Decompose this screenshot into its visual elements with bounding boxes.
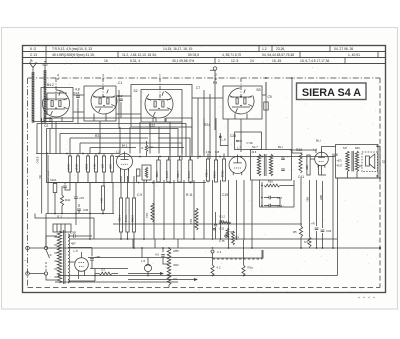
component on wire 266 xyxy=(264,102,268,110)
resistor column R44 xyxy=(94,156,97,172)
power transformer secondary xyxy=(68,234,70,283)
svg-text:30T: 30T xyxy=(101,164,105,169)
wire antenna drop join xyxy=(51,122,53,129)
earth lead coil hatched xyxy=(44,70,46,123)
resistor R6b xyxy=(226,228,229,238)
svg-text:1: 1 xyxy=(159,74,161,78)
svg-text:R13: R13 xyxy=(189,219,193,224)
chassis boundary top dash-dot xyxy=(28,77,380,79)
power transformer taps xyxy=(54,237,57,277)
svg-text:B4.2: B4.2 xyxy=(122,143,128,147)
svg-text:C28: C28 xyxy=(230,134,236,138)
svg-text:C 13: C 13 xyxy=(30,53,37,57)
svg-text:S.1: S.1 xyxy=(57,215,62,219)
capacitor C48 xyxy=(269,204,271,208)
wire dashed y259 xyxy=(213,258,263,260)
svg-text:R.11: R.11 xyxy=(186,193,193,197)
small box mid xyxy=(137,169,140,176)
svg-text:R26: R26 xyxy=(296,148,302,152)
wires output stage xyxy=(310,147,336,176)
bus line main xyxy=(36,153,120,155)
model label box SIERA S4 A xyxy=(297,83,367,100)
svg-text:L.7: L.7 xyxy=(237,146,241,150)
svg-text:R49: R49 xyxy=(355,147,360,150)
box around BF9 C36 labels xyxy=(235,132,262,150)
resistor column R45 xyxy=(102,156,105,172)
svg-text:2: 2 xyxy=(218,59,220,63)
resistor box column R8 xyxy=(167,160,170,182)
AVC cluster box xyxy=(260,180,295,207)
svg-text:R12: R12 xyxy=(145,213,149,218)
transformer top winding box xyxy=(53,224,71,232)
svg-text:15, 6,7,4,5 17,17,36: 15, 6,7,4,5 17,17,36 xyxy=(300,59,329,63)
wires center-low verticals xyxy=(121,176,134,248)
capacitor C25 xyxy=(90,259,94,261)
svg-text:4.8: 4.8 xyxy=(75,88,80,92)
wires IF to output connector xyxy=(290,150,316,154)
svg-text:C41: C41 xyxy=(298,175,304,179)
antenna post terminal xyxy=(213,67,217,71)
svg-text:500K: 500K xyxy=(85,164,89,170)
wires resistor column tops xyxy=(70,154,112,157)
resistor column R46 xyxy=(110,156,113,172)
tube B1 wiring box xyxy=(41,88,73,122)
svg-text:+25°: +25° xyxy=(95,255,101,259)
svg-text:R31: R31 xyxy=(306,197,309,202)
table row 1 text xyxy=(30,47,353,51)
svg-text:44013: 44013 xyxy=(205,170,208,177)
wire corners xyxy=(213,250,264,258)
svg-text:R6: R6 xyxy=(231,230,235,234)
svg-text:C4051: C4051 xyxy=(131,215,134,223)
svg-text:C40/B: C40/B xyxy=(37,156,40,163)
svg-text:40011: 40011 xyxy=(155,171,158,178)
bus y257 xyxy=(88,257,213,259)
svg-text:R16: R16 xyxy=(268,180,273,184)
svg-text:R48: R48 xyxy=(319,195,322,200)
wire routing mesh upper xyxy=(44,118,192,157)
svg-text:R42: R42 xyxy=(65,198,71,202)
svg-text:R62: R62 xyxy=(174,263,180,267)
chassis boundary right dashed xyxy=(379,78,381,288)
wire verticals right of B4 xyxy=(266,78,292,153)
svg-text:5.5: 5.5 xyxy=(101,268,105,272)
wires transformer secondary taps xyxy=(68,248,95,282)
svg-text:C45: C45 xyxy=(215,151,220,154)
svg-text:04, 27 06, 26: 04, 27 06, 26 xyxy=(334,47,353,51)
svg-text:R: R xyxy=(142,146,144,150)
bus y224 xyxy=(113,223,302,225)
wires switch to transformer xyxy=(46,236,57,280)
tube L3 small xyxy=(229,157,246,174)
svg-text:R44: R44 xyxy=(93,164,97,169)
resistor S5 horizontal xyxy=(99,272,112,275)
resistor R2a xyxy=(242,265,245,276)
svg-text:40/17: 40/17 xyxy=(337,166,343,168)
svg-text:C4.8: C4.8 xyxy=(73,91,80,95)
wire vertical drops from tubes xyxy=(56,118,241,154)
antenna symbol xyxy=(30,62,36,72)
wires bottom middle verticals xyxy=(133,239,178,258)
svg-text:S4.7: S4.7 xyxy=(252,145,258,149)
wire vertical x46.5 xyxy=(47,129,51,183)
svg-text:R86: R86 xyxy=(174,249,180,253)
power transformer core xyxy=(63,230,65,284)
resistor R1.2 horizontal xyxy=(219,221,231,223)
svg-text:C 4: C 4 xyxy=(217,250,222,254)
wire tube stubs to chassis line xyxy=(56,78,241,101)
resistor box column R10 xyxy=(189,160,192,182)
mains terminal top xyxy=(26,246,30,250)
chassis boundary left dash-dot xyxy=(27,78,29,288)
page mark dots xyxy=(358,297,374,298)
scattered small labels xyxy=(44,81,338,219)
bus lower-left cluster xyxy=(46,213,114,215)
svg-text:R28: R28 xyxy=(305,165,308,170)
svg-text:14,15, 16,17, 18, 19: 14,15, 16,17, 18, 19 xyxy=(163,47,192,51)
bus y275 xyxy=(58,275,338,277)
earth symbol xyxy=(42,62,47,70)
power transformer S5 primary xyxy=(57,231,61,283)
tube L1 small xyxy=(117,154,133,170)
capacitor C45 xyxy=(161,255,165,257)
output transformer windings xyxy=(346,151,349,172)
svg-text:24: 24 xyxy=(250,59,254,63)
svg-text:S2: S2 xyxy=(134,89,138,93)
svg-text:BL.I: BL.I xyxy=(278,145,283,149)
wires right verticals xyxy=(301,154,333,249)
tube B1 socket top view xyxy=(42,90,69,117)
resistor R44 tall xyxy=(101,186,104,210)
svg-text:C36: C36 xyxy=(83,208,89,212)
tube L4 output small xyxy=(315,152,329,166)
svg-text:4, 55,71 6,70: 4, 55,71 6,70 xyxy=(222,53,241,57)
svg-text:R4042: R4042 xyxy=(124,215,127,223)
scan noise speckle xyxy=(24,47,384,292)
svg-text:4 2: 4 2 xyxy=(217,266,221,270)
svg-text:4.5: 4.5 xyxy=(155,253,159,257)
svg-text:R44: R44 xyxy=(100,198,103,203)
svg-text:C22: C22 xyxy=(149,124,155,128)
svg-text:5. G: 5. G xyxy=(30,47,37,51)
wires mains to switch xyxy=(29,248,44,274)
svg-text:22: 22 xyxy=(382,160,386,164)
svg-text:C3Ø: C3Ø xyxy=(70,231,77,235)
capacitor C36b xyxy=(77,209,81,211)
resistor R15 xyxy=(308,237,311,247)
wire loop right xyxy=(337,178,339,276)
svg-text:9.5: 9.5 xyxy=(304,240,308,244)
svg-text:4.5m: 4.5m xyxy=(206,151,211,154)
resistor R42 xyxy=(60,195,63,206)
wires verticals above bus right-mid xyxy=(198,118,228,160)
tube B2 socket top view xyxy=(91,88,117,114)
table column ticks xyxy=(46,46,378,64)
svg-text:4Ø°: 4Ø° xyxy=(71,242,76,246)
svg-text:BL.I: BL.I xyxy=(316,139,321,143)
resistor R12 xyxy=(151,203,154,222)
svg-text:C.9: C.9 xyxy=(137,193,142,197)
switch position labels on boundary xyxy=(57,73,217,77)
wires column tops/bottoms xyxy=(137,154,225,183)
svg-text:15, 45: 15, 45 xyxy=(272,59,281,63)
svg-text:R3012: R3012 xyxy=(221,170,224,178)
svg-text:T.R.9,12, 4,9 (mc)/10, 5, 13: T.R.9,12, 4,9 (mc)/10, 5, 13 xyxy=(52,47,92,51)
svg-text:44031: 44031 xyxy=(176,171,179,178)
svg-text:C16: C16 xyxy=(219,219,224,223)
dial lamp L6 xyxy=(144,264,151,271)
svg-text:C4051: C4051 xyxy=(213,171,216,179)
resistor R1b vertical xyxy=(232,231,235,245)
pin stubs under tubes xyxy=(50,114,247,123)
wire bus partial y218 xyxy=(35,214,94,240)
svg-text:16: 16 xyxy=(104,59,108,63)
svg-text:R21: R21 xyxy=(95,134,101,138)
svg-text:547: 547 xyxy=(343,147,348,150)
tube B4 socket top view xyxy=(228,88,254,114)
capacitor C4.8 xyxy=(76,96,80,98)
wire long vertical x41.7 xyxy=(41,118,43,214)
svg-text:L.4: L.4 xyxy=(313,148,317,152)
svg-text:+R: +R xyxy=(311,222,315,226)
svg-text:50 03,5: 50 03,5 xyxy=(188,53,199,57)
svg-text:C34: C34 xyxy=(326,229,332,233)
svg-text:C4042: C4042 xyxy=(165,171,168,179)
svg-text:R41T: R41T xyxy=(75,164,79,171)
resistor chain R86 R62 R1 xyxy=(167,248,171,285)
svg-text:11,2, J 4& 12,13, 16 34,: 11,2, J 4& 12,13, 16 34, xyxy=(122,53,157,57)
svg-text:R4042: R4042 xyxy=(187,171,190,179)
svg-text:3: 3 xyxy=(102,74,104,78)
wires verticals below L3 xyxy=(213,180,253,248)
svg-text:BF9: BF9 xyxy=(236,139,242,143)
resistor R5 xyxy=(299,226,302,237)
resistor box column R9 xyxy=(178,160,181,182)
resistor boxes mid right xyxy=(206,159,209,181)
svg-text:44012: 44012 xyxy=(118,215,121,222)
resistor R16 horizontal xyxy=(264,184,280,187)
tube B3 socket top view xyxy=(145,91,173,118)
svg-text:+675: +675 xyxy=(337,161,343,163)
resistor R4 small xyxy=(145,145,148,152)
tube B4 wiring box xyxy=(223,86,262,119)
arrows pointers xyxy=(128,273,160,275)
resistor box column R7 xyxy=(157,160,160,182)
svg-text:1, 40,91: 1, 40,91 xyxy=(348,53,360,57)
table row lines xyxy=(23,52,386,64)
resistor boxes center-low xyxy=(119,198,122,232)
chassis boundary bottom dashed xyxy=(28,287,381,289)
svg-text:L8: L8 xyxy=(334,153,338,157)
svg-text:04, 54,44 48,57,75,38: 04, 54,44 48,57,75,38 xyxy=(262,53,294,57)
tube B2 wiring box xyxy=(84,86,116,121)
bus y268 xyxy=(90,268,128,270)
svg-text:SIERA S4 A: SIERA S4 A xyxy=(302,87,361,99)
terminal C4 xyxy=(211,250,214,253)
svg-text:+F5: +F5 xyxy=(79,196,84,200)
bus y248 xyxy=(46,247,380,249)
svg-text:5,31, 4: 5,31, 4 xyxy=(130,59,140,63)
wire antenna to input xyxy=(33,119,52,122)
svg-text:45 4 BR(1926)9 9(mc) 31,15,: 45 4 BR(1926)9 9(mc) 31,15, xyxy=(52,53,95,57)
svg-text:L.1: L.1 xyxy=(116,150,120,154)
svg-text:R3: R3 xyxy=(213,81,217,85)
output transformer box xyxy=(336,145,379,179)
speaker xyxy=(362,152,378,172)
svg-text:R:: R: xyxy=(30,59,33,63)
svg-text:R24: R24 xyxy=(204,123,210,127)
svg-text:B3: B3 xyxy=(257,88,261,92)
svg-text:4: 4 xyxy=(57,74,59,78)
svg-text:C40A: C40A xyxy=(67,164,71,171)
antenna coil L1 hatched xyxy=(32,72,34,123)
svg-text:R5: R5 xyxy=(293,230,297,234)
resistor R2 xyxy=(211,265,214,276)
svg-text:L.5: L.5 xyxy=(74,249,79,253)
svg-text:23,26,: 23,26, xyxy=(276,47,285,51)
capacitor C34 xyxy=(321,230,325,232)
IF transformer S4 xyxy=(251,150,292,181)
capacitor C12 xyxy=(119,99,123,101)
wire risers between boxes xyxy=(78,70,266,128)
rectifier tube L5 xyxy=(75,258,89,272)
terminal C76 xyxy=(225,235,227,237)
switch S1 xyxy=(44,246,47,249)
svg-text:12, 5: 12, 5 xyxy=(231,59,238,63)
svg-text:34.8: 34.8 xyxy=(252,151,257,154)
cluster box caps/resistors left xyxy=(48,182,113,184)
wires lower-left cluster xyxy=(48,155,113,214)
svg-text:C2: C2 xyxy=(44,124,48,128)
table row 2 text xyxy=(30,53,360,57)
capacitor F5 xyxy=(74,197,78,199)
svg-text:C7: C7 xyxy=(196,86,200,90)
wires connecting tube boxes xyxy=(73,95,266,114)
table row 3 text xyxy=(30,59,329,63)
tube L1 pins xyxy=(121,169,129,183)
resistor column R41 xyxy=(76,156,79,172)
svg-text:S: S xyxy=(50,253,52,257)
svg-text:R2a: R2a xyxy=(248,266,254,270)
svg-text:C40A: C40A xyxy=(50,179,57,182)
coil box L2 xyxy=(142,165,151,180)
svg-text:B4.2: B4.2 xyxy=(47,83,54,87)
bus y239 xyxy=(70,238,337,240)
svg-text:C38: C38 xyxy=(109,164,113,169)
capacitor C16 column xyxy=(215,212,217,239)
svg-text:L.9: L.9 xyxy=(222,138,226,142)
capacitor C31b xyxy=(213,229,216,230)
resistor R27 xyxy=(299,153,302,173)
capacitor C27 xyxy=(269,196,271,200)
svg-text:C19: C19 xyxy=(222,193,228,197)
schematic frame xyxy=(23,46,386,293)
svg-text:C1: C1 xyxy=(118,81,122,85)
bus second y182.5 xyxy=(46,182,206,184)
capacitor C30 top xyxy=(74,234,76,238)
resistor R13 xyxy=(195,208,198,230)
svg-text:1.2: 1.2 xyxy=(262,47,267,51)
resistor column R43 xyxy=(86,156,89,172)
mains terminal bottom xyxy=(26,272,30,276)
svg-text:R1: R1 xyxy=(174,277,178,281)
svg-text:30,1 09,58, 0%: 30,1 09,58, 0% xyxy=(172,59,194,63)
svg-text:L.6: L.6 xyxy=(141,259,146,263)
capacitor R48 xyxy=(315,228,319,230)
tube B3 wiring box xyxy=(141,90,182,123)
bus y282 xyxy=(55,281,178,283)
resistor box R28 xyxy=(307,155,310,175)
resistor column R40 xyxy=(68,156,71,172)
